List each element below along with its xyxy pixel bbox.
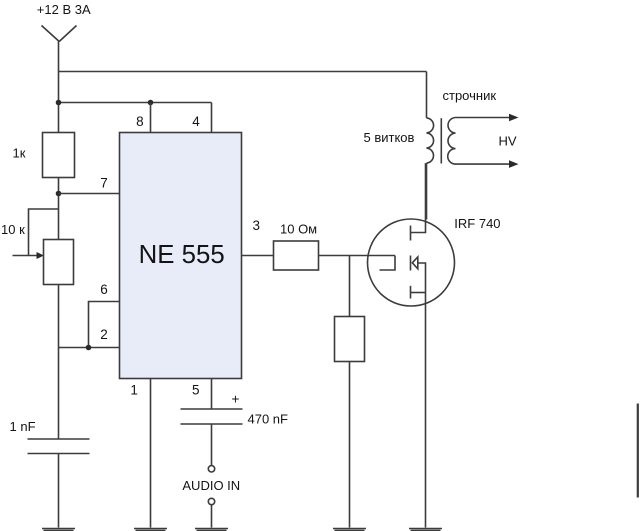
wire audio terminal to ground — [211, 505, 213, 528]
wire gate node down to resistor R4 — [349, 256, 351, 317]
svg-text:IRF 740: IRF 740 — [454, 216, 500, 231]
wire pin 5 to capacitor C2 — [211, 379, 213, 410]
node AUDIO IN label — [182, 478, 240, 493]
svg-text:1к: 1к — [13, 146, 26, 161]
svg-text:HV: HV — [499, 134, 517, 149]
wire pin 6 — [89, 302, 120, 348]
svg-text:6: 6 — [100, 282, 108, 297]
transformer T1 secondary winding — [448, 118, 456, 165]
ground under audio — [195, 528, 228, 530]
transformer T1 primary winding 5 turns — [426, 72, 428, 118]
svg-text:3: 3 — [252, 218, 260, 233]
wire Vcc to pins 8 and 4 — [59, 102, 212, 104]
svg-text:+: + — [232, 392, 240, 407]
resistor R3 10 Ohm — [274, 241, 319, 270]
svg-text:строчник: строчник — [443, 88, 497, 103]
potentiometer R2 10k body — [44, 240, 74, 285]
svg-text:+12 В 3А: +12 В 3А — [37, 2, 91, 17]
node junction dot at pin 7 — [56, 191, 62, 197]
svg-text:1: 1 — [130, 383, 138, 398]
wire C1 to ground — [58, 454, 60, 528]
wire main vertical from supply to resistor R1 — [58, 42, 60, 133]
node audio terminal upper — [208, 466, 214, 472]
HV bottom arrowhead — [509, 160, 519, 168]
node audio terminal lower — [208, 498, 214, 504]
transistor body bar — [410, 256, 412, 271]
pin 1 label — [130, 383, 138, 398]
transistor source electrode bar — [410, 286, 412, 299]
pin 6 label — [100, 282, 108, 297]
wire top rail to transformer — [59, 71, 427, 73]
pin 2 label — [100, 327, 108, 342]
wire HV bottom lead — [456, 163, 510, 165]
wiper arrowhead — [37, 252, 45, 259]
wire transformer to drain — [411, 163, 426, 232]
svg-text:7: 7 — [100, 176, 108, 191]
ground under source — [409, 528, 442, 530]
svg-text:NE 555: NE 555 — [139, 241, 225, 269]
power input symbol — [42, 26, 77, 42]
node junction dot at pin 8 branch — [148, 100, 154, 106]
svg-text:8: 8 — [136, 114, 144, 129]
svg-text:1 nF: 1 nF — [10, 419, 36, 434]
resistor R4 gate-source — [335, 317, 365, 362]
pin 3 label — [252, 218, 260, 233]
wire cropped at right edge — [637, 404, 639, 498]
node +12V supply label — [37, 2, 91, 17]
transistor Q1 IRF740 circle — [368, 219, 455, 306]
wire pin 7 — [59, 193, 120, 195]
transistor body arrow — [412, 257, 418, 269]
wire R4 to ground — [349, 362, 351, 528]
capacitor C1 1 nF — [28, 439, 90, 454]
wire body to source lead — [418, 263, 426, 293]
svg-text:2: 2 — [100, 327, 108, 342]
pin 7 label — [100, 176, 108, 191]
wire potentiometer wiper loop — [13, 209, 59, 256]
resistor R1 1k — [43, 133, 75, 178]
node junction dot pins 2/6 — [86, 345, 92, 351]
wire source to ground — [425, 293, 427, 528]
ground under pin 1 — [134, 528, 167, 530]
pin 8 label — [136, 114, 144, 129]
wire pin 4 — [211, 103, 213, 133]
wire pin 3 to resistor R3 — [242, 255, 274, 257]
wire source lead — [411, 292, 426, 294]
HV top arrowhead — [509, 114, 519, 122]
svg-text:5: 5 — [192, 383, 200, 398]
wire gate lead inside circle — [380, 256, 396, 271]
wire HV top lead — [456, 117, 510, 119]
wire R1 to potentiometer — [58, 178, 60, 240]
svg-text:10 к: 10 к — [1, 222, 25, 237]
wire pin 1 to ground — [150, 379, 152, 528]
pin 4 label — [192, 114, 200, 129]
ground under R4 — [333, 528, 366, 530]
wire pot to capacitor C1 — [58, 285, 60, 440]
ground under C1 — [42, 528, 75, 530]
capacitor C2 470 nF — [181, 409, 243, 424]
wire R3 to gate — [319, 255, 396, 257]
transistor drain electrode bar — [410, 226, 412, 241]
svg-text:AUDIO IN: AUDIO IN — [182, 478, 240, 493]
pin 5 label — [192, 383, 200, 398]
transformer T1 core — [440, 118, 442, 163]
wire C2 to audio terminal — [211, 424, 213, 466]
node label HV — [499, 134, 517, 149]
wire pin 8 — [150, 103, 152, 133]
op-amp U1 NE555 body — [120, 133, 242, 379]
wire pin 2 — [59, 347, 120, 349]
node label strochnik — [443, 88, 497, 103]
svg-text:10 Ом: 10 Ом — [280, 222, 317, 237]
node junction dot at supply/Vcc — [56, 100, 62, 106]
svg-text:4: 4 — [192, 114, 200, 129]
svg-text:5 витков: 5 витков — [364, 130, 415, 145]
svg-text:470 nF: 470 nF — [248, 411, 289, 426]
